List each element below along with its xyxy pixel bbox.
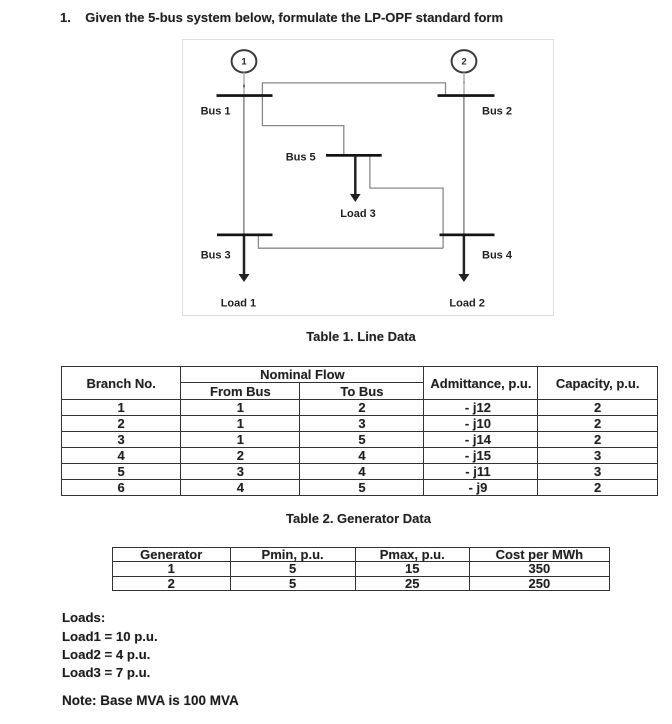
bus 2 bar bbox=[438, 94, 495, 97]
loads block bbox=[62, 609, 158, 682]
note line bbox=[62, 693, 239, 708]
table 1 caption bbox=[63, 329, 659, 344]
wire bus1 to bus2 bbox=[262, 83, 445, 95]
svg-text:Bus 5: Bus 5 bbox=[286, 151, 316, 163]
svg-text:2: 2 bbox=[461, 57, 466, 68]
figure border bbox=[183, 40, 554, 316]
bus 4 bar bbox=[440, 234, 495, 237]
svg-text:Bus 4: Bus 4 bbox=[482, 250, 513, 262]
load 1 arrow bbox=[243, 236, 246, 276]
svg-text:Load 2: Load 2 bbox=[449, 297, 484, 309]
bus 1 bar bbox=[217, 94, 273, 97]
svg-text:1: 1 bbox=[241, 57, 247, 68]
wire bus3 to bus4 bbox=[258, 236, 443, 248]
generator G1 lead tick bbox=[243, 85, 245, 88]
svg-text:Bus 2: Bus 2 bbox=[482, 105, 512, 117]
generator G2 bbox=[452, 50, 477, 72]
svg-text:Bus 3: Bus 3 bbox=[201, 249, 231, 261]
table 1 bbox=[61, 366, 658, 496]
generator G2 lead wire bbox=[463, 73, 465, 95]
wire bus5 to bus4 bbox=[370, 157, 443, 249]
wire bus1 to bus3 bbox=[243, 97, 245, 235]
generator G1 bbox=[232, 50, 257, 72]
svg-text:Bus 1: Bus 1 bbox=[201, 105, 231, 117]
wire bus2 to bus4 bbox=[463, 97, 465, 235]
load 3 arrow bbox=[354, 156, 357, 196]
wire bus1 to bus5 bbox=[262, 97, 343, 155]
generator G1 lead wire bbox=[243, 73, 245, 95]
load 2 arrow bbox=[463, 236, 466, 276]
generator G2 lead tick bbox=[463, 82, 465, 84]
table 2 caption bbox=[110, 511, 607, 526]
table 2 bbox=[112, 547, 610, 591]
bus 3 bar bbox=[217, 234, 273, 237]
title bbox=[60, 10, 503, 25]
svg-text:Load 1: Load 1 bbox=[221, 297, 256, 309]
svg-text:Load 3: Load 3 bbox=[340, 208, 375, 220]
bus 5 bar bbox=[326, 154, 382, 157]
